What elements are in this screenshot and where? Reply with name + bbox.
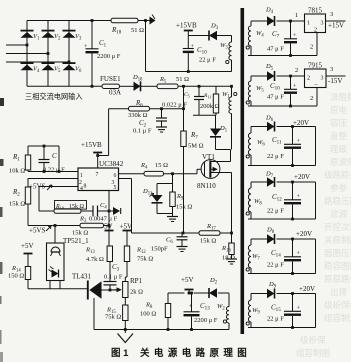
wire DC- bus [27,85,102,87]
wire LED cathode [59,281,61,289]
svg-text:100 Ω: 100 Ω [140,311,156,318]
winding W5 [250,76,252,81]
capacitor C12 [292,182,294,200]
regulator 7915 [305,69,327,88]
winding W1 [231,86,233,97]
capacitor C3 [109,289,112,292]
winding W3 [231,36,233,43]
fuse FUSE1 [102,84,120,88]
svg-text:0.1 μ F: 0.1 μ F [104,274,123,281]
svg-text:4: 4 [80,186,83,192]
svg-text:47 μ F: 47 μ F [267,94,284,101]
svg-text:2: 2 [295,67,298,74]
svg-text:15k Ω: 15k Ω [176,204,192,211]
regulator 7815 [305,14,326,33]
diode D6 [251,126,267,128]
wire phase A input [6,44,27,46]
capacitor C1 [91,21,93,49]
svg-text:原波理: 原波理 [330,157,351,167]
svg-text:三相交流电网输入: 三相交流电网输入 [25,92,83,101]
winding W2 [228,293,230,307]
wire HV riser R7 column [182,85,185,88]
resistor R15 [124,298,126,306]
svg-text:+15VB: +15VB [81,141,102,149]
wire top DC+ bus [27,20,111,22]
svg-text:R10: R10 [55,204,64,211]
diode D11 [156,184,158,196]
svg-text:47 μ F: 47 μ F [267,46,284,53]
ground clamp [167,217,178,222]
resistor R9 [172,184,174,193]
svg-text:51 Ω: 51 Ω [131,27,144,34]
svg-text:组容制图: 组容制图 [296,348,330,358]
svg-text:开控次流: 开控次流 [324,222,351,232]
svg-text:出择: 出择 [330,287,348,297]
node DC+ arrow junction [144,19,147,22]
svg-text:关稳制压: 关稳制压 [324,235,351,245]
wire block right D [315,239,317,274]
resistor R16 [231,233,233,243]
svg-text:1: 1 [80,173,83,179]
svg-text:UC3842: UC3842 [99,160,124,168]
wire R12 to RP1 [126,262,128,278]
svg-text:15k Ω: 15k Ω [200,238,216,245]
ground C2 [156,127,167,132]
capacitor C13 [190,292,193,295]
wire pin3 line [119,178,132,180]
svg-text:0.0047 μ F: 0.0047 μ F [89,216,118,223]
svg-text:图 1: 图 1 [111,348,129,359]
svg-text:理级: 理级 [330,144,348,154]
wire phase B input [6,53,48,55]
svg-text:C: C [52,152,57,160]
wire block right D [315,294,317,328]
svg-text:R11: R11 [203,93,211,100]
capacitor C6 [181,233,183,237]
svg-text:关电源电路原理图: 关电源电路原理图 [140,347,251,359]
transistor VT1 [201,160,220,179]
svg-text:330k Ω: 330k Ω [128,112,148,119]
svg-text:组容制波: 组容制波 [324,313,351,323]
svg-text:7915: 7915 [308,62,323,70]
svg-text:2: 2 [307,76,310,82]
capacitor C15 [292,294,294,312]
wire D4 to 7815 [277,20,305,22]
wire comp right leg [58,146,60,172]
diode V4 [21,65,34,71]
svg-text:3: 3 [330,66,333,73]
capacitor C14 [292,239,294,257]
diode D10 [134,82,141,91]
winding W4 [250,21,252,26]
diode V2 [42,32,55,38]
capacitor C7 [290,21,292,39]
svg-text:+5V: +5V [120,223,133,231]
diode D4 [267,16,275,25]
svg-text:稳容图压: 稳容图压 [324,261,351,271]
opto transistor symbol [51,247,60,252]
svg-text:75k Ω: 75k Ω [105,314,121,321]
diode D1 [215,115,217,128]
svg-text:75k Ω: 75k Ω [137,256,153,263]
capacitor C4 [92,206,94,217]
wire -15 block bottom [248,105,317,107]
svg-text:RP1: RP1 [130,277,143,285]
svg-text:+5VS: +5VS [29,227,46,235]
wire comp top [28,145,59,147]
wire D out [277,238,316,240]
svg-text:200k Ω: 200k Ω [200,103,220,110]
resistor R4 [144,171,164,176]
resistor R18 [111,18,138,23]
wire aux bottom [146,71,232,73]
svg-text:TP521_1: TP521_1 [63,237,89,245]
svg-text:直整: 直整 [330,131,348,141]
svg-text:+5V: +5V [21,242,34,250]
capacitor C5 snubber [198,85,201,88]
diode D8 [251,238,267,240]
wire bottom left link [28,288,88,290]
wire D out [277,293,316,295]
svg-text:FUSE1: FUSE1 [100,75,121,83]
arrow gnd pin5 [108,210,111,213]
resistor R14 [25,267,30,280]
svg-text:3: 3 [321,21,324,27]
resistor R7 5M [181,131,186,147]
svg-text:7: 7 [96,172,99,178]
diode D3 [209,31,217,40]
resistor R17 [199,231,220,236]
wire W4 top [251,20,267,22]
svg-text:2200 μ F: 2200 μ F [97,53,121,60]
diode D9 [251,293,267,295]
resistor R8 100 [167,293,169,304]
winding W6 [250,127,252,134]
svg-text:1: 1 [307,21,310,27]
wire pin6 line [119,173,145,175]
wire clamp bottom [157,213,173,215]
wire pin4 line [39,186,78,188]
capacitor C9 0.22 [43,146,45,160]
wire snubber bottom [193,114,216,116]
svg-text:VT1: VT1 [202,153,215,161]
ground C6 [177,247,188,252]
capacitor C10 aux [187,70,190,73]
svg-text:C5: C5 [184,92,190,99]
wire R2 to opto [27,204,29,226]
svg-text:22 μ F: 22 μ F [199,57,216,64]
wire source column [231,173,233,234]
svg-text:15k Ω: 15k Ω [72,230,88,237]
wire block bottom D [248,165,316,167]
svg-text:150 Ω: 150 Ω [8,273,24,280]
capacitor C11 [292,127,294,145]
diode D2 [209,288,217,297]
wire D out [277,126,316,128]
wire pin4 drop [38,187,40,212]
svg-text:22 μ F: 22 μ F [267,208,284,215]
power +15VB tap [184,30,193,32]
wire vcc from R6 line [96,154,99,157]
wire opto collector [54,226,56,244]
svg-text:0.22 μ F: 0.22 μ F [43,167,65,174]
svg-text:0.1 μ F: 0.1 μ F [133,128,152,135]
svg-text:+20V: +20V [299,285,315,293]
svg-text:03A: 03A [109,89,121,97]
wire block bottom D [248,273,316,275]
capacitor C8 [290,76,292,89]
svg-text:路稳压阻: 路稳压阻 [324,196,351,206]
svg-text:5: 5 [114,185,117,191]
resistor R11 200k [215,86,217,94]
wire bridge col1 [26,21,28,87]
wire block right D [315,127,317,166]
svg-text:4.7k Ω: 4.7k Ω [86,256,104,263]
svg-text:2: 2 [310,44,313,51]
wire D5 to 7915 [277,75,305,77]
wire 7815 gnd leg [316,33,318,56]
svg-text:参参: 参参 [330,183,348,193]
svg-text:150pF: 150pF [151,246,168,253]
wire phase C input [6,61,69,63]
opto-coupler TP521_1 box [47,243,65,281]
resistor R5 [157,84,178,89]
svg-text:18 Ω: 18 Ω [222,255,235,262]
wire pin1 line [28,171,78,173]
winding W7 [250,239,252,245]
wire D out [277,181,316,183]
svg-text:5M Ω: 5M Ω [188,143,204,150]
diode V3 [63,32,76,38]
svg-text:8N110: 8N110 [197,182,216,190]
diode D7 [251,181,267,183]
svg-text:7815: 7815 [308,7,323,15]
wire DC+ to aux [145,21,147,72]
diode V6 [63,65,76,71]
svg-text:容压: 容压 [330,118,348,128]
svg-text:−: − [314,81,318,89]
resistor R2 [27,179,29,188]
svg-text:3: 3 [321,76,324,82]
node gate junction [171,172,174,175]
resistor R10 [54,209,81,214]
svg-text:级路稳关: 级路稳关 [324,170,351,180]
wire TL431 ref leg [93,298,95,330]
svg-text:22 μ F: 22 μ F [267,153,284,160]
op-amp U1 UC3842 box [78,168,119,191]
wire LED anode [49,281,51,289]
wire bottom rail [94,329,229,331]
svg-text:-15V: -15V [328,77,342,85]
resistor R6 330k [109,108,129,110]
resistor R13 [107,246,112,262]
wire TL431 anode line [101,289,111,291]
wire -15V out [326,75,346,77]
wire gate [164,173,198,175]
svg-text:15k Ω: 15k Ω [9,201,25,208]
diode D5 [267,71,275,80]
svg-text:3: 3 [330,11,333,18]
svg-text:22 μ F: 22 μ F [267,316,284,323]
svg-text:级析保组: 级析保组 [324,300,351,310]
winding W9 [250,294,252,301]
wire block right D [315,182,317,219]
svg-text:15 Ω: 15 Ω [155,162,168,169]
svg-text:2200 μ F: 2200 μ F [194,317,218,324]
wire pin5 column [108,191,110,230]
resistor R3 [55,225,80,227]
svg-text:2k Ω: 2k Ω [130,289,143,296]
svg-text:6: 6 [114,173,117,179]
wire 5V top line [168,292,185,294]
wire W5 top [251,75,267,77]
svg-text:+15V: +15V [328,22,344,30]
svg-text:1: 1 [295,12,298,19]
edge specks [0,98,4,106]
svg-text:51 Ω: 51 Ω [176,76,189,83]
winding W8 [250,182,252,188]
diode V1 [21,32,34,38]
svg-text:TL431: TL431 [72,273,92,281]
ground chassis arrow [118,334,134,343]
svg-text:原稳路件: 原稳路件 [324,274,351,284]
wire clamp top [172,174,174,184]
svg-text:10k Ω: 10k Ω [9,168,25,175]
svg-text:+20V: +20V [296,230,312,238]
transformer core bar [241,8,245,334]
svg-text:滤源: 滤源 [330,209,348,219]
wire bridge col3 [68,21,70,87]
wire +15 block bottom [248,55,317,57]
wire block bottom D [248,327,316,329]
svg-text:15k Ω: 15k Ω [69,204,85,210]
ground R16 [226,259,237,264]
svg-text:原电: 原电 [330,105,348,115]
wire +15V out [326,20,346,22]
potentiometer RP1 [123,282,128,298]
resistor R1 [27,146,29,155]
svg-text:+15VB: +15VB [176,22,197,30]
svg-text:22 μ F: 22 μ F [267,262,284,269]
resistor R12 [124,246,129,262]
wire 7915 gnd leg [316,88,318,107]
svg-text:+20V: +20V [294,173,310,181]
svg-text:2: 2 [310,95,313,102]
svg-text:+5V: +5V [181,276,194,284]
wire D3 branch [188,35,209,37]
svg-text:流阻数: 流阻数 [330,92,351,102]
svg-text:8: 8 [84,184,87,190]
wire pin2 line [28,178,78,180]
node CS C6 [182,232,185,235]
svg-text:+20V: +20V [293,119,309,127]
diode V5 [42,65,55,71]
wire RC line [39,210,54,212]
wire block bottom D [248,218,316,220]
wire bridge col2 [47,21,49,87]
svg-text:器图压稳: 器图压稳 [324,248,351,258]
svg-text:级析保: 级析保 [300,335,326,345]
wire drain link [216,149,231,151]
capacitor C2 [160,107,163,110]
wire R17 to source [220,232,232,234]
off-page arrow DC+ [146,20,150,22]
opto LED symbol [52,270,59,278]
